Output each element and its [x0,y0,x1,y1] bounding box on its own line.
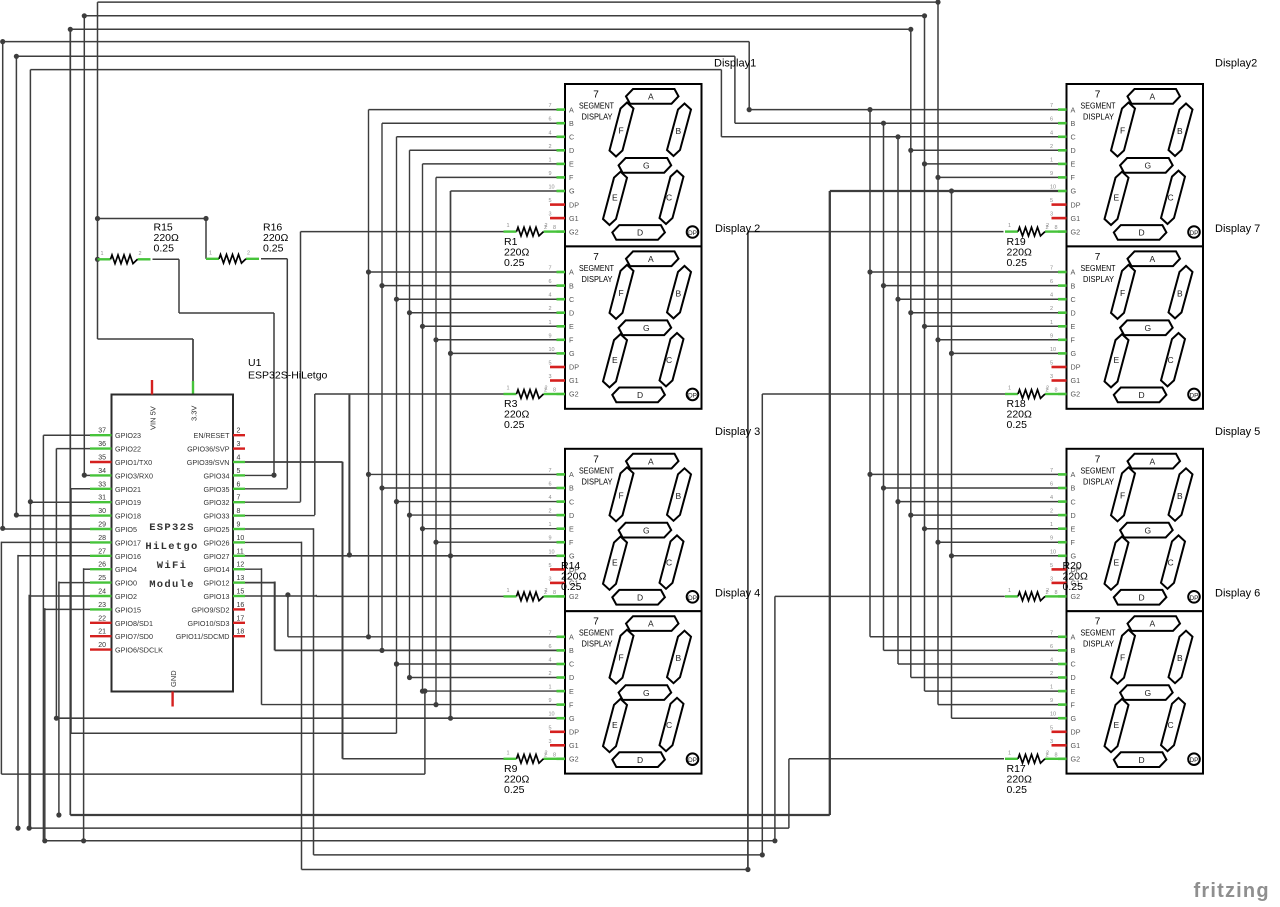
svg-text:36: 36 [98,441,106,448]
svg-text:3: 3 [1050,212,1053,218]
svg-text:A: A [648,456,654,466]
svg-text:20: 20 [98,642,106,649]
svg-text:GPIO5: GPIO5 [115,525,137,534]
svg-text:3: 3 [549,374,552,380]
svg-text:Display 5: Display 5 [1215,426,1260,438]
svg-text:G: G [569,349,575,358]
svg-text:7: 7 [593,90,599,101]
svg-text:8: 8 [553,388,556,394]
svg-text:C: C [569,133,574,142]
svg-text:DP: DP [569,728,579,737]
svg-text:HiLetgo: HiLetgo [145,541,198,553]
svg-text:3.3V: 3.3V [190,406,199,421]
svg-text:G: G [1145,323,1152,333]
svg-text:F: F [569,538,574,547]
svg-text:GPIO39/SVN: GPIO39/SVN [187,458,230,467]
svg-text:SEGMENT: SEGMENT [1081,101,1116,111]
svg-text:DP: DP [1189,595,1198,602]
svg-text:Display 2: Display 2 [715,223,760,235]
svg-text:F: F [569,700,574,709]
svg-text:1: 1 [1050,157,1053,163]
svg-text:DISPLAY: DISPLAY [582,274,613,284]
svg-text:2: 2 [1046,588,1049,594]
svg-text:G: G [1071,187,1077,196]
svg-text:2: 2 [545,386,548,392]
svg-text:G2: G2 [1071,390,1081,399]
svg-text:1: 1 [1008,750,1011,756]
svg-text:ESP32S-HiLetgo: ESP32S-HiLetgo [248,370,328,382]
svg-text:E: E [612,557,618,567]
svg-text:D: D [637,390,643,400]
svg-text:9: 9 [1050,333,1053,339]
svg-text:5: 5 [1050,361,1053,367]
svg-text:GPIO13: GPIO13 [204,592,230,601]
svg-text:2: 2 [247,250,250,256]
svg-text:A: A [1150,456,1156,466]
svg-text:C: C [1168,720,1174,730]
svg-text:A: A [648,254,654,264]
svg-text:8: 8 [237,508,241,515]
svg-text:B: B [676,126,682,136]
svg-text:A: A [569,633,574,642]
svg-text:27: 27 [98,548,106,555]
svg-text:8: 8 [553,752,556,758]
svg-text:GPIO14: GPIO14 [204,565,230,574]
svg-text:G: G [569,187,575,196]
svg-text:G: G [643,526,650,536]
svg-text:B: B [1177,126,1183,136]
svg-text:DP: DP [1189,230,1198,237]
svg-text:7: 7 [1095,252,1101,263]
svg-text:1: 1 [507,386,510,392]
svg-text:C: C [1168,355,1174,365]
svg-text:3: 3 [1050,374,1053,380]
svg-text:1: 1 [507,588,510,594]
svg-text:Display 6: Display 6 [1215,588,1260,600]
svg-text:C: C [569,660,574,669]
svg-text:F: F [569,173,574,182]
svg-text:GPIO4: GPIO4 [115,565,137,574]
svg-text:G1: G1 [1071,214,1081,223]
svg-text:A: A [648,92,654,102]
svg-text:B: B [1177,491,1183,501]
svg-text:7: 7 [1095,617,1101,628]
svg-text:DP: DP [1071,200,1081,209]
svg-text:GPIO23: GPIO23 [115,431,141,440]
svg-text:1: 1 [1050,522,1053,528]
svg-text:fritzing: fritzing [1194,880,1270,902]
svg-text:GPIO15: GPIO15 [115,605,141,614]
svg-text:4: 4 [237,455,241,462]
svg-text:GPIO16: GPIO16 [115,552,141,561]
svg-text:DP: DP [688,392,697,399]
svg-text:1: 1 [209,250,212,256]
svg-text:GPIO10/SD3: GPIO10/SD3 [188,619,230,628]
svg-text:1: 1 [1050,320,1053,326]
svg-text:G: G [1145,161,1152,171]
svg-text:1: 1 [1008,223,1011,229]
svg-text:1: 1 [549,685,552,691]
svg-text:6: 6 [1050,279,1053,285]
svg-text:D: D [1139,755,1145,765]
svg-text:1: 1 [549,320,552,326]
svg-text:8: 8 [553,225,556,231]
svg-text:A: A [648,619,654,629]
svg-text:0.25: 0.25 [504,419,525,431]
svg-text:0.25: 0.25 [1007,257,1028,269]
svg-text:7: 7 [1095,90,1101,101]
svg-text:10: 10 [1050,712,1056,718]
svg-text:7: 7 [1050,266,1053,272]
svg-text:D: D [1139,228,1145,238]
svg-text:2: 2 [1050,306,1053,312]
svg-text:C: C [666,193,672,203]
svg-text:DP: DP [569,200,579,209]
svg-text:GPIO3/RX0: GPIO3/RX0 [115,471,153,480]
svg-text:10: 10 [1050,185,1056,191]
svg-text:D: D [1071,308,1076,317]
svg-text:DP: DP [688,230,697,237]
svg-text:GPIO22: GPIO22 [115,445,141,454]
svg-text:EN/RESET: EN/RESET [194,431,231,440]
svg-text:1: 1 [1008,386,1011,392]
svg-text:E: E [1071,524,1076,533]
svg-text:D: D [569,308,574,317]
svg-text:F: F [619,653,624,663]
svg-text:GPIO9/SD2: GPIO9/SD2 [192,605,230,614]
svg-text:7: 7 [1050,468,1053,474]
svg-text:A: A [1150,619,1156,629]
svg-text:C: C [569,497,574,506]
svg-text:B: B [1071,119,1076,128]
svg-text:0.25: 0.25 [1007,419,1028,431]
svg-text:2: 2 [1050,509,1053,515]
svg-text:Module: Module [149,579,195,591]
svg-text:F: F [1071,336,1076,345]
svg-text:1: 1 [549,157,552,163]
svg-text:A: A [1150,92,1156,102]
svg-text:A: A [569,470,574,479]
svg-text:6: 6 [549,644,552,650]
svg-text:SEGMENT: SEGMENT [579,465,614,475]
svg-text:DP: DP [688,595,697,602]
svg-text:33: 33 [98,481,106,488]
svg-text:7: 7 [1095,454,1101,465]
svg-text:F: F [1071,173,1076,182]
svg-text:B: B [1071,646,1076,655]
svg-text:GPIO6/SDCLK: GPIO6/SDCLK [115,646,163,655]
svg-text:2: 2 [237,428,241,435]
svg-text:GPIO36/SVP: GPIO36/SVP [187,445,230,454]
svg-text:G1: G1 [1071,741,1081,750]
svg-text:B: B [1177,653,1183,663]
svg-text:7: 7 [1050,103,1053,109]
svg-text:VIN 5V: VIN 5V [149,406,158,430]
svg-text:GPIO26: GPIO26 [204,538,230,547]
svg-text:B: B [569,646,574,655]
svg-text:1: 1 [507,223,510,229]
svg-text:31: 31 [98,495,106,502]
svg-text:G2: G2 [569,755,579,764]
svg-text:1: 1 [1008,588,1011,594]
svg-text:2: 2 [549,671,552,677]
svg-text:6: 6 [1050,482,1053,488]
svg-text:G2: G2 [1071,755,1081,764]
svg-text:13: 13 [237,575,245,582]
svg-text:B: B [569,484,574,493]
svg-text:GPIO21: GPIO21 [115,485,141,494]
svg-text:A: A [569,268,574,277]
svg-text:G: G [1071,714,1077,723]
svg-text:G: G [1145,688,1152,698]
svg-text:25: 25 [98,575,106,582]
svg-text:G: G [643,688,650,698]
svg-text:29: 29 [98,522,106,529]
svg-text:7: 7 [549,103,552,109]
svg-text:10: 10 [549,549,555,555]
svg-text:SEGMENT: SEGMENT [1081,465,1116,475]
svg-text:0.25: 0.25 [504,257,525,269]
svg-text:4: 4 [1050,658,1053,664]
svg-text:F: F [619,126,624,136]
svg-text:GPIO17: GPIO17 [115,538,141,547]
svg-text:4: 4 [1050,293,1053,299]
svg-text:3: 3 [549,739,552,745]
svg-text:DISPLAY: DISPLAY [1083,112,1114,122]
svg-text:A: A [1150,254,1156,264]
svg-text:C: C [1168,193,1174,203]
svg-text:0.25: 0.25 [504,784,525,796]
svg-text:GPIO25: GPIO25 [204,525,230,534]
svg-text:DP: DP [688,757,697,764]
svg-text:9: 9 [549,536,552,542]
svg-text:U1: U1 [248,357,262,369]
svg-text:DISPLAY: DISPLAY [1083,639,1114,649]
svg-text:F: F [569,336,574,345]
svg-text:10: 10 [549,347,555,353]
svg-text:A: A [1071,268,1076,277]
svg-text:DP: DP [1189,392,1198,399]
svg-text:D: D [1071,673,1076,682]
svg-text:G1: G1 [1071,376,1081,385]
svg-text:0.25: 0.25 [1007,784,1028,796]
svg-text:B: B [676,653,682,663]
svg-text:G: G [1145,526,1152,536]
svg-text:SEGMENT: SEGMENT [1081,628,1116,638]
svg-text:7: 7 [549,266,552,272]
svg-text:10: 10 [1050,347,1056,353]
svg-text:GPIO1/TX0: GPIO1/TX0 [115,458,152,467]
svg-text:DP: DP [1071,363,1081,372]
svg-text:F: F [1071,700,1076,709]
svg-text:10: 10 [1050,549,1056,555]
svg-text:GPIO0: GPIO0 [115,579,137,588]
svg-text:DISPLAY: DISPLAY [582,476,613,486]
svg-text:B: B [676,491,682,501]
svg-text:34: 34 [98,468,106,475]
svg-text:2: 2 [1046,750,1049,756]
svg-text:DP: DP [1189,757,1198,764]
svg-text:SEGMENT: SEGMENT [579,263,614,273]
svg-text:Display1: Display1 [714,58,756,70]
svg-text:E: E [569,160,574,169]
svg-text:8: 8 [1055,225,1058,231]
svg-text:B: B [569,281,574,290]
svg-text:B: B [1071,484,1076,493]
svg-text:0.25: 0.25 [561,581,582,593]
svg-text:G1: G1 [569,214,579,223]
svg-text:C: C [666,720,672,730]
svg-text:SEGMENT: SEGMENT [579,628,614,638]
svg-text:2: 2 [549,306,552,312]
svg-text:26: 26 [98,562,106,569]
svg-text:22: 22 [98,615,106,622]
svg-text:1: 1 [549,522,552,528]
svg-text:7: 7 [549,630,552,636]
svg-text:D: D [1139,593,1145,603]
svg-text:E: E [612,193,618,203]
svg-text:SEGMENT: SEGMENT [1081,263,1116,273]
svg-text:3: 3 [237,441,241,448]
svg-text:2: 2 [1046,386,1049,392]
svg-text:GPIO35: GPIO35 [204,485,230,494]
svg-text:GPIO33: GPIO33 [204,512,230,521]
svg-text:B: B [676,288,682,298]
svg-text:G2: G2 [1071,227,1081,236]
svg-text:E: E [1114,355,1120,365]
svg-text:9: 9 [549,333,552,339]
svg-text:17: 17 [237,615,245,622]
svg-text:F: F [1120,490,1125,500]
svg-text:G: G [569,714,575,723]
svg-text:F: F [1120,126,1125,136]
svg-text:G: G [643,323,650,333]
svg-text:F: F [1071,538,1076,547]
svg-text:G2: G2 [569,390,579,399]
svg-text:37: 37 [98,428,106,435]
svg-text:B: B [1071,281,1076,290]
svg-text:9: 9 [1050,171,1053,177]
svg-text:5: 5 [549,361,552,367]
svg-text:A: A [1071,633,1076,642]
svg-text:Display2: Display2 [1215,58,1257,70]
svg-text:E: E [569,322,574,331]
svg-text:2: 2 [1050,144,1053,150]
svg-text:8: 8 [1055,590,1058,596]
svg-text:10: 10 [549,712,555,718]
svg-text:2: 2 [1046,223,1049,229]
svg-text:G2: G2 [569,592,579,601]
svg-text:2: 2 [545,750,548,756]
svg-text:7: 7 [593,617,599,628]
svg-text:E: E [1114,720,1120,730]
svg-text:12: 12 [237,562,245,569]
svg-text:F: F [1120,288,1125,298]
svg-text:D: D [637,593,643,603]
svg-text:3: 3 [1050,576,1053,582]
svg-text:5: 5 [1050,725,1053,731]
svg-text:E: E [569,687,574,696]
svg-text:G1: G1 [569,741,579,750]
svg-text:8: 8 [553,590,556,596]
svg-text:G: G [1071,349,1077,358]
svg-text:2: 2 [139,251,142,257]
svg-text:GPIO2: GPIO2 [115,592,137,601]
svg-text:E: E [569,524,574,533]
svg-text:7: 7 [593,252,599,263]
svg-text:D: D [637,755,643,765]
svg-text:WiFi: WiFi [157,560,187,572]
svg-text:C: C [1071,295,1076,304]
svg-text:9: 9 [1050,698,1053,704]
svg-text:9: 9 [549,171,552,177]
svg-text:5: 5 [1050,563,1053,569]
svg-text:8: 8 [1055,388,1058,394]
svg-text:DP: DP [1071,728,1081,737]
svg-text:0.25: 0.25 [263,243,284,255]
svg-text:11: 11 [237,548,244,555]
svg-text:21: 21 [98,629,106,636]
svg-text:4: 4 [549,495,552,501]
svg-text:G1: G1 [569,376,579,385]
svg-text:D: D [1071,511,1076,520]
svg-text:GPIO12: GPIO12 [204,579,230,588]
svg-text:C: C [666,557,672,567]
svg-text:1: 1 [1050,685,1053,691]
svg-text:4: 4 [549,658,552,664]
svg-text:2: 2 [545,588,548,594]
svg-text:9: 9 [549,698,552,704]
svg-text:A: A [569,105,574,114]
svg-text:C: C [1168,557,1174,567]
svg-text:D: D [1139,390,1145,400]
svg-text:SEGMENT: SEGMENT [579,101,614,111]
svg-text:23: 23 [98,602,106,609]
svg-text:9: 9 [237,522,241,529]
svg-text:1: 1 [101,251,104,257]
svg-text:6: 6 [549,117,552,123]
svg-text:DISPLAY: DISPLAY [582,112,613,122]
svg-text:3: 3 [549,576,552,582]
svg-text:Display 4: Display 4 [715,588,760,600]
svg-text:G2: G2 [1071,592,1081,601]
svg-text:DISPLAY: DISPLAY [1083,476,1114,486]
svg-text:4: 4 [549,130,552,136]
svg-text:GND: GND [169,670,178,687]
svg-text:7: 7 [237,495,241,502]
svg-text:D: D [569,511,574,520]
svg-text:2: 2 [549,509,552,515]
svg-text:5: 5 [1050,198,1053,204]
svg-text:E: E [1071,322,1076,331]
svg-text:6: 6 [549,482,552,488]
svg-text:DP: DP [569,363,579,372]
svg-text:8: 8 [1055,752,1058,758]
svg-text:7: 7 [1050,630,1053,636]
svg-text:G2: G2 [569,227,579,236]
svg-text:F: F [619,490,624,500]
svg-text:15: 15 [237,589,245,596]
svg-text:G: G [643,161,650,171]
svg-text:ESP32S: ESP32S [149,522,195,534]
svg-text:6: 6 [1050,644,1053,650]
svg-text:0.25: 0.25 [154,243,175,255]
svg-text:16: 16 [237,602,245,609]
svg-text:E: E [612,355,618,365]
svg-text:C: C [1071,497,1076,506]
svg-text:DISPLAY: DISPLAY [1083,274,1114,284]
svg-text:F: F [1120,653,1125,663]
